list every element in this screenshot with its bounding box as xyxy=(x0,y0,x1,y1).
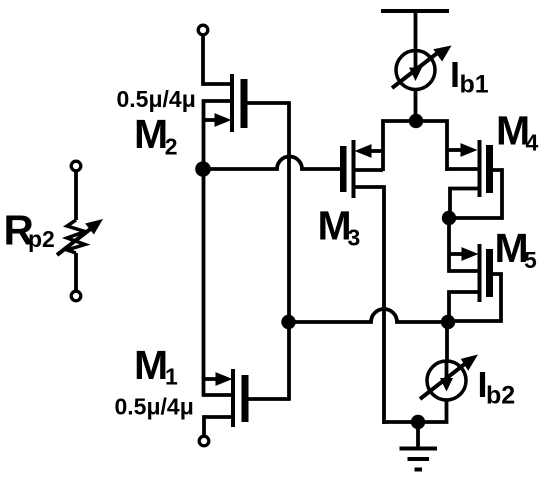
terminal (top of Rp2) xyxy=(71,161,81,171)
junction dot Ib1 node xyxy=(409,114,423,128)
wire node A to M3 gate with hop over gate bus xyxy=(203,157,340,170)
wire (M2 drain lead) xyxy=(203,35,232,84)
M5 channel line xyxy=(478,244,482,302)
svg-text:M: M xyxy=(134,342,168,388)
M2 source arrow xyxy=(204,118,219,122)
M4 body tie xyxy=(447,167,479,171)
resistor zigzag body xyxy=(67,220,85,253)
svg-text:b2: b2 xyxy=(486,382,515,410)
label Rp2 xyxy=(4,207,55,254)
transistor M1 xyxy=(199,369,289,446)
variability arrow of Rp2 xyxy=(57,229,91,256)
M4 channel line xyxy=(478,140,482,197)
wire bus node to Ib2 xyxy=(445,322,449,362)
terminal (bottom of Rp2) xyxy=(71,291,81,301)
wire (M1 drain lead) xyxy=(204,417,233,436)
wire rail to Ib1 xyxy=(414,11,418,52)
wire M5 drain xyxy=(449,292,480,321)
transistor M5 xyxy=(449,218,501,321)
M1 channel line xyxy=(231,369,235,427)
M2 channel line xyxy=(230,74,234,132)
M1 body tie xyxy=(204,393,234,397)
label Ib1 xyxy=(450,54,489,99)
M2 body+source tie xyxy=(204,101,233,169)
wire (Rp2 top lead) xyxy=(74,171,78,220)
transistor M4 xyxy=(447,140,502,218)
transistor M2 xyxy=(198,25,289,169)
junction dot M4/M5 xyxy=(442,211,456,225)
M4 gate loop to drain xyxy=(449,170,502,218)
M5 gate bar xyxy=(486,249,493,297)
M3 channel line xyxy=(352,140,356,198)
svg-text:0.5μ/4μ: 0.5μ/4μ xyxy=(117,86,196,112)
current source Ib2 xyxy=(418,355,478,423)
M3 gate bar xyxy=(340,146,347,192)
terminal (M1 drain, bottom) xyxy=(199,436,209,446)
M5 gate loop to drain xyxy=(449,274,501,321)
label M4 xyxy=(496,108,539,156)
wire M5 source from node xyxy=(447,218,451,273)
junction dot ground node xyxy=(411,415,425,429)
label M5 xyxy=(495,225,538,273)
M3 body tie xyxy=(354,168,384,172)
M1 gate lead xyxy=(249,397,290,401)
M4 source arrow xyxy=(447,148,462,152)
wire node A down to M1 xyxy=(202,169,206,397)
svg-text:I: I xyxy=(450,54,460,95)
M4 gate bar xyxy=(486,145,493,193)
M5 body tie xyxy=(449,269,479,273)
svg-text:2: 2 xyxy=(165,134,178,160)
M3 source arrow xyxy=(355,144,372,158)
svg-text:5: 5 xyxy=(524,247,537,273)
M1 source arrow xyxy=(204,377,219,381)
junction dot gate bus right xyxy=(441,315,455,329)
junction dot gate bus left xyxy=(281,315,295,329)
label M2 xyxy=(134,111,177,160)
wire gate bus vertical (M2 gate to M1 gate) xyxy=(287,101,291,401)
M1 gate bar xyxy=(242,375,249,422)
label M3 xyxy=(318,203,361,251)
label Ib2 xyxy=(478,364,516,410)
ground xyxy=(400,422,438,470)
wire Ib2 to ground rail xyxy=(418,400,447,422)
node A junction dot xyxy=(195,161,211,177)
svg-text:p2: p2 xyxy=(28,226,55,252)
resistor Rp2 xyxy=(57,161,103,301)
wire M3 drain down to ground rail xyxy=(354,187,385,424)
wire Ib1 node to M3 and M4 sources xyxy=(383,121,447,171)
label M1 xyxy=(134,342,178,390)
Ib2 variability arrow xyxy=(420,363,466,399)
supply rail xyxy=(381,9,449,13)
wire Ib1 to node xyxy=(414,90,418,122)
svg-text:4: 4 xyxy=(526,130,539,156)
svg-text:M: M xyxy=(134,111,168,157)
wire (Rp2 bottom lead) xyxy=(74,253,78,291)
M5 source arrow xyxy=(449,252,463,256)
wire ground rail horizontal xyxy=(382,420,418,424)
terminal (M2 drain, top) xyxy=(198,25,208,35)
wire M4 drain xyxy=(450,189,480,219)
transistor M3 xyxy=(340,140,384,424)
wire gate bus horizontal with hop over M3 drain xyxy=(289,309,449,322)
svg-text:b1: b1 xyxy=(460,71,489,99)
M2 gate lead xyxy=(248,101,290,105)
M2 gate bar xyxy=(241,79,248,128)
Ib1 variability arrow xyxy=(392,51,440,88)
svg-text:3: 3 xyxy=(348,225,361,251)
svg-text:1: 1 xyxy=(165,364,178,390)
svg-text:0.5μ/4μ: 0.5μ/4μ xyxy=(115,394,194,420)
current source Ib1 xyxy=(392,46,452,122)
